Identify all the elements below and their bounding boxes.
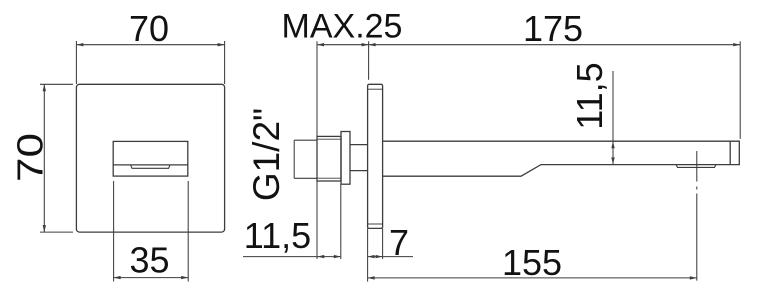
dimension 70 left: extension lines (40, 84, 73, 232)
pipe between collar and flange (350, 144, 368, 146)
svg-text:35: 35 (129, 240, 169, 281)
svg-text:175: 175 (523, 8, 583, 49)
wall flange side view (368, 84, 383, 228)
G1/2 thread callout bracket (294, 140, 317, 178)
dimension 70 top: dimension line (76, 44, 224, 46)
dimension 70 left: arrows (43, 84, 46, 232)
dimension 7: dimension line (368, 228, 413, 259)
extension line at flange left edge (MAX.25 right / 175 left) (368, 41, 370, 80)
flange rim lines (368, 89, 383, 224)
svg-text:70: 70 (10, 133, 51, 182)
svg-text:MAX.25: MAX.25 (282, 8, 403, 46)
dimension 155: dimension line (368, 228, 697, 281)
dimension 11,5 bottom arrows (317, 255, 341, 258)
svg-text:11,5: 11,5 (569, 62, 610, 129)
outlet centerline (dash-dot) (696, 151, 698, 281)
dimension 11,5 right arrows (611, 141, 614, 164)
dimension 155 arrows (368, 276, 697, 279)
dimension 35: arrows (114, 276, 189, 279)
extension line at fitting left edge (down to 11,5) (316, 181, 318, 259)
svg-text:155: 155 (502, 242, 562, 283)
dimension 175 arrows (369, 43, 741, 46)
collar (341, 132, 350, 185)
svg-text:7: 7 (389, 222, 409, 263)
dimension 35: extension lines (114, 181, 189, 282)
extension line at spout tip (739, 41, 741, 139)
dimension MAX.25 arrows (317, 43, 369, 46)
extension line at flange left edge (down) (367, 228, 369, 281)
dimension 70 top: arrows (76, 43, 224, 46)
extension line fitting right edge (340, 184, 342, 259)
thread root lines (317, 139, 341, 178)
spout front face line (113, 164, 188, 166)
svg-text:11,5: 11,5 (244, 215, 311, 256)
spout front view box (113, 141, 188, 176)
dimension MAX.25 / 175: shared dimension line (317, 41, 740, 259)
dimension 11,5 right vertical (612, 71, 614, 164)
svg-text:G1/2": G1/2" (246, 108, 287, 201)
outlet lip side view (676, 165, 716, 168)
svg-text:70: 70 (129, 8, 169, 49)
wall plate front view (76, 84, 224, 232)
dimension 70 left: dimension line (43, 84, 45, 232)
outlet slot front view (131, 165, 170, 168)
spout tip cap line (729, 141, 731, 164)
dimension 11,5 bottom: dimension line (243, 184, 341, 259)
extension line at fitting left edge (up) (316, 41, 318, 136)
dimension 35: dimension line (114, 277, 189, 279)
spout body side view (383, 141, 740, 176)
dimension 7 arrows (368, 255, 383, 258)
dimension 70 top: extension lines (76, 41, 224, 84)
threaded fitting G1/2 side view (317, 136, 341, 181)
